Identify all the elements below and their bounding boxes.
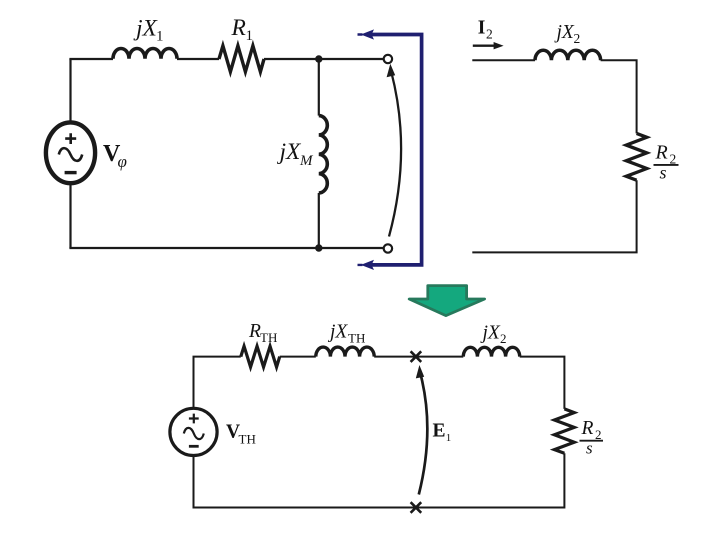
svg-text:2: 2 [500,331,507,346]
source VTH minus [189,445,199,448]
wire: top to RTH [193,356,241,358]
current arrow I2 [473,45,496,47]
wire: top left lead [472,59,535,61]
source VTH [170,408,217,455]
svg-text:jX: jX [133,16,159,42]
wire: left vertical top [193,357,195,409]
svg-text:1: 1 [156,29,164,45]
resistor R1 [219,46,264,72]
arc arrow between terminals [389,72,401,237]
terminal: bottom open circle [384,244,392,252]
source Vphi plus [65,133,76,144]
source Vphi minus [65,171,77,174]
wire: right bottom + bottom with X mark [193,453,565,507]
wire: magnetizing branch top [318,59,320,116]
wire: left vertical top segment [69,59,71,123]
svg-text:E: E [433,421,446,442]
wire: jX2 to right corner, down [520,357,565,409]
node: junction bottom [315,244,322,251]
resistor R2/s bottom [554,409,574,453]
X mark bottom [411,502,422,513]
svg-text:jX: jX [327,322,348,343]
wire: left vertical bottom [193,455,195,507]
wire: jXTH to jX2 crossing X mark [374,356,463,358]
svg-text:jX: jX [277,139,303,165]
svg-text:jX: jX [554,22,575,43]
source Vphi [46,122,95,183]
svg-text:R: R [581,418,594,439]
X mark top [411,351,422,362]
wire: R1 to terminal [264,58,384,60]
inductor jX2 [535,50,601,60]
wire: RTH to jXTH [280,356,316,358]
svg-text:R: R [231,15,246,41]
wire: between jX1 and R1 [177,58,219,60]
svg-text:2: 2 [595,427,602,442]
svg-text:s: s [586,439,593,458]
svg-text:M: M [299,153,314,169]
bracket arrowhead bottom [358,260,375,270]
svg-text:TH: TH [348,330,365,345]
source VTH plus [189,414,199,424]
svg-text:φ: φ [118,152,127,171]
resistor RTH [241,346,280,367]
arc arrow E1 [419,374,428,495]
source Vphi sine [59,148,82,161]
source VTH sine [184,428,204,439]
svg-text:1: 1 [246,28,254,44]
svg-text:jX: jX [480,322,501,343]
inductor jXTH [316,347,374,357]
wire: bottom [69,247,383,249]
wire: top from corner to jX1 [69,58,113,60]
svg-text:2: 2 [486,27,493,42]
wire: right bottom + bottom [472,180,636,252]
svg-text:I: I [478,18,486,39]
wire: magnetizing branch bottom [318,193,320,248]
wire: left vertical bottom segment [69,183,71,248]
svg-text:1: 1 [446,432,452,444]
bracket arrowhead top [358,29,375,39]
resistor R2/s [626,133,647,180]
inductor jX2 bottom [463,347,519,356]
terminal: top open circle [384,55,392,63]
bracket line [369,35,422,265]
inductor jXM [319,116,328,193]
svg-text:s: s [660,162,667,182]
svg-text:2: 2 [574,31,581,46]
wire: top right corner [601,60,637,133]
svg-text:TH: TH [260,330,277,345]
svg-text:TH: TH [239,431,256,446]
svg-text:R: R [655,142,668,164]
inductor jX1 [113,49,177,59]
node: junction top [315,55,322,62]
